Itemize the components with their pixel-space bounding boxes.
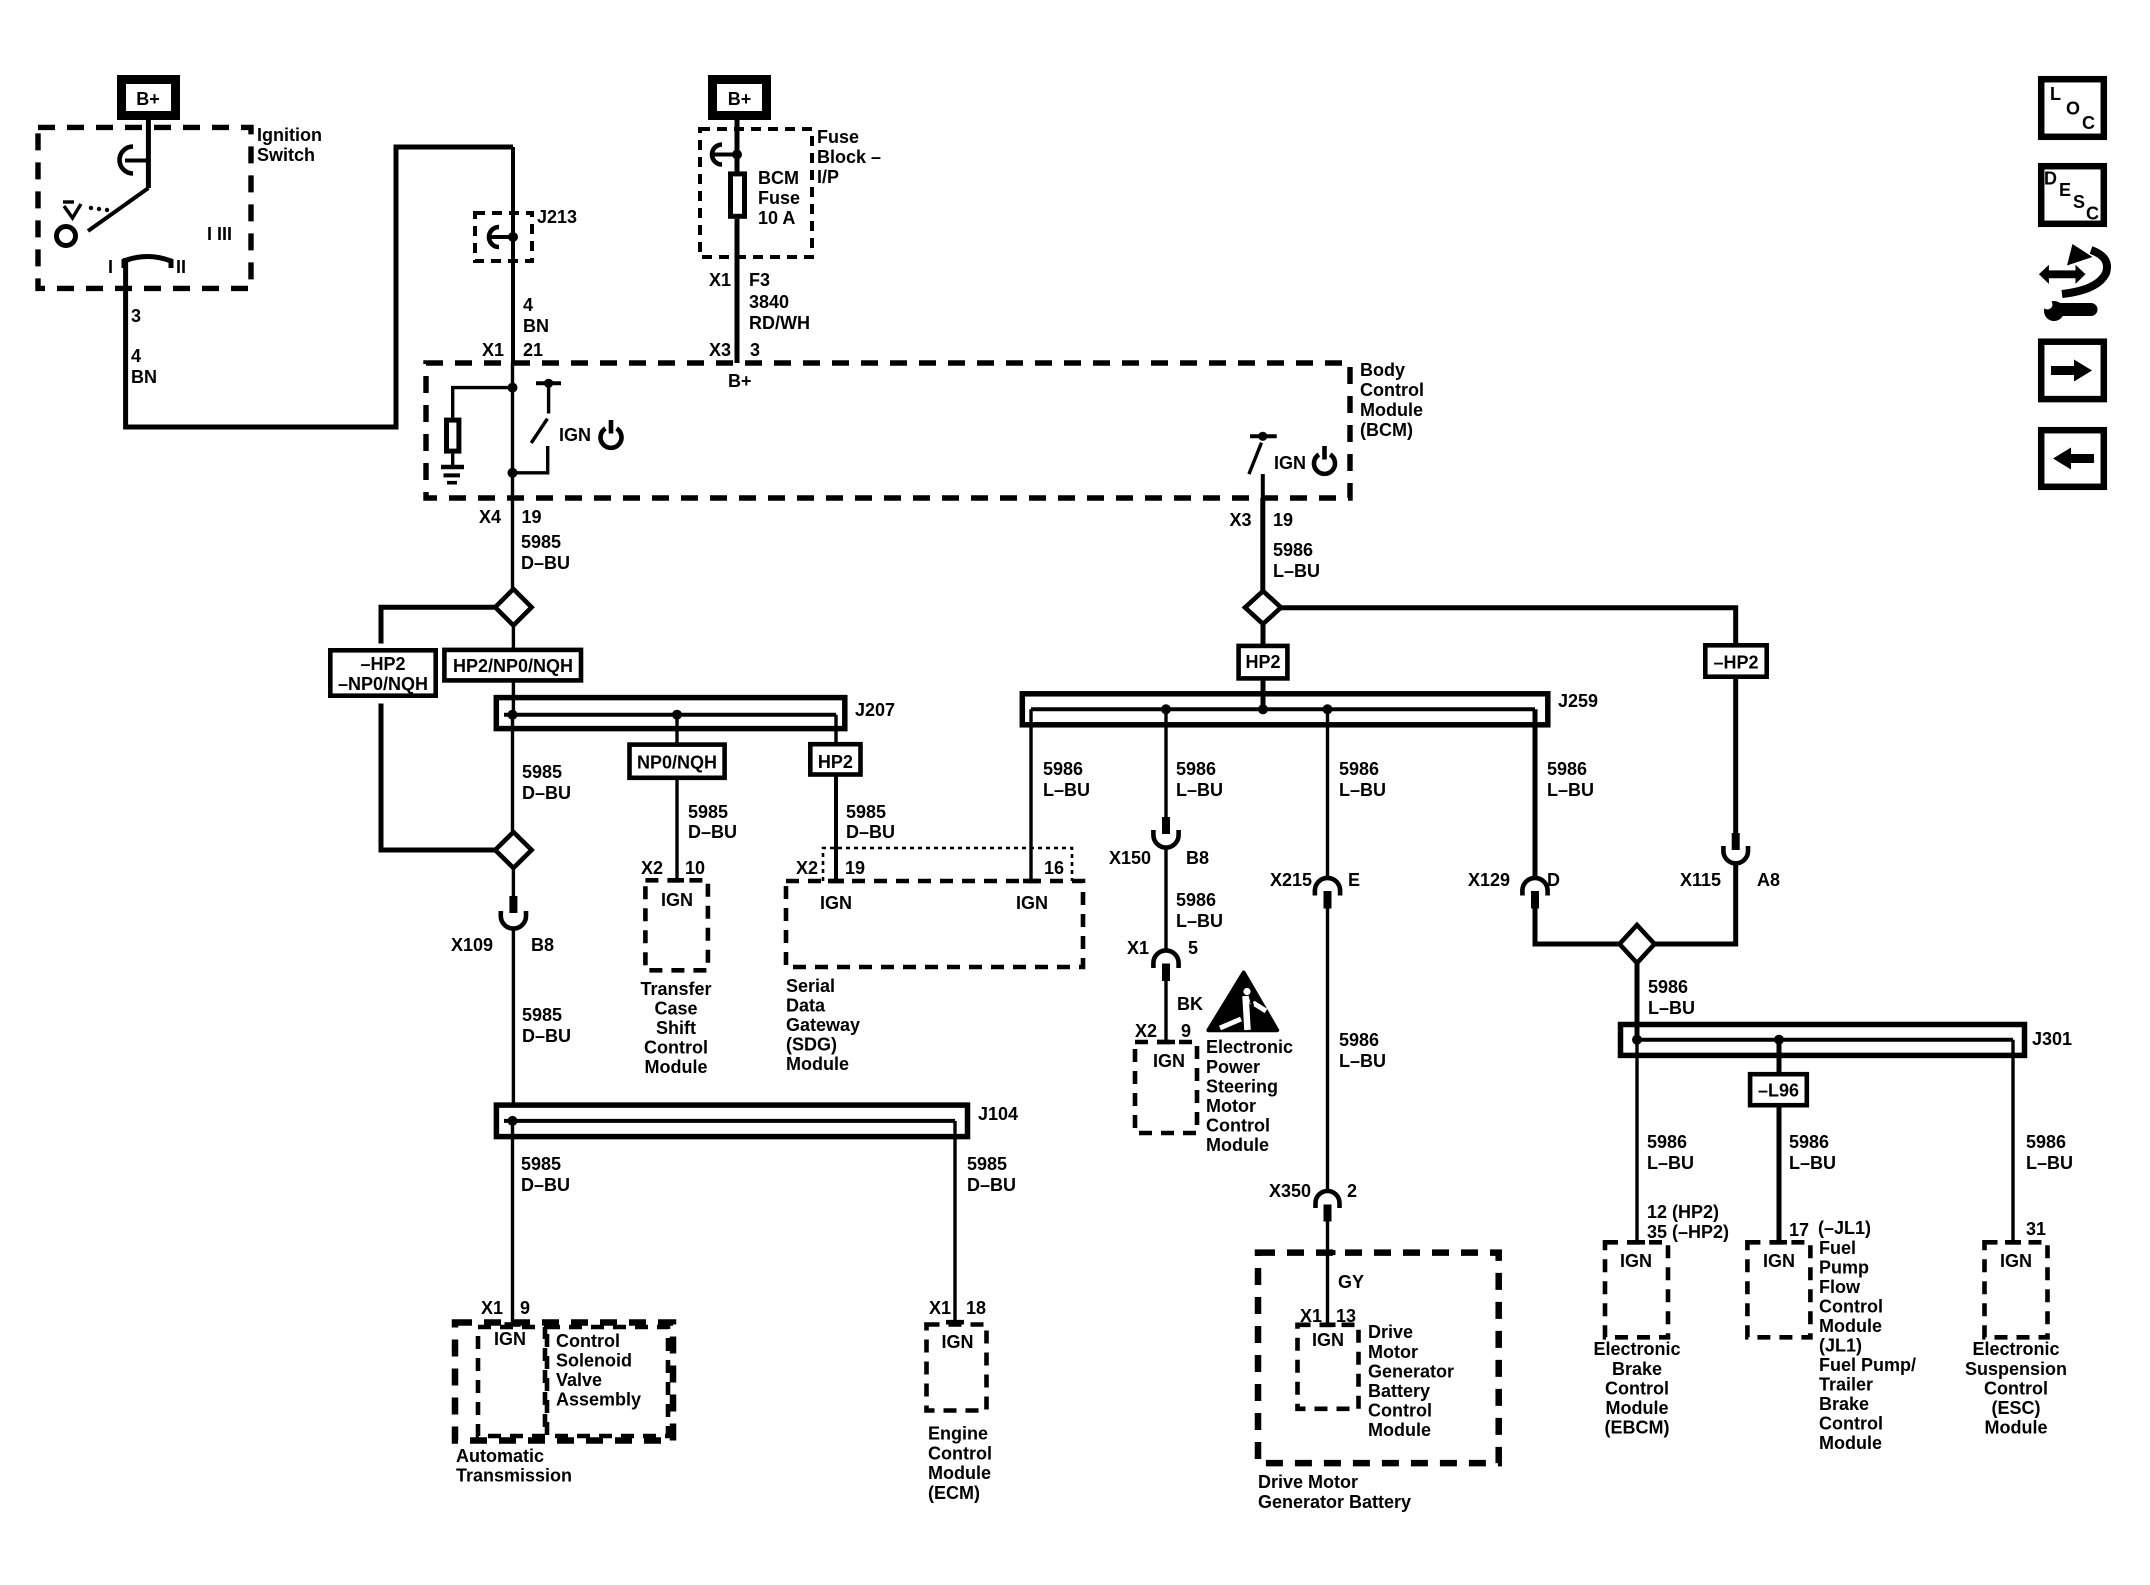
svg-text:L: L — [2050, 84, 2061, 104]
svg-text:10 A: 10 A — [758, 208, 795, 228]
svg-text:X1: X1 — [481, 1298, 503, 1318]
svg-text:C: C — [2082, 113, 2095, 133]
svg-text:X109: X109 — [451, 935, 493, 955]
svg-text:Switch: Switch — [257, 145, 315, 165]
svg-text:Motor: Motor — [1206, 1096, 1256, 1116]
svg-text:Case: Case — [654, 999, 697, 1019]
svg-text:Control: Control — [1368, 1401, 1432, 1421]
svg-text:IGN: IGN — [820, 893, 852, 913]
svg-text:Module: Module — [1368, 1420, 1431, 1440]
svg-text:–NP0/NQH: –NP0/NQH — [338, 674, 428, 694]
svg-text:Module: Module — [645, 1057, 708, 1077]
svg-text:5986: 5986 — [1339, 759, 1379, 779]
svg-text:HP2: HP2 — [818, 752, 853, 772]
svg-text:(ECM): (ECM) — [928, 1483, 980, 1503]
svg-text:L–BU: L–BU — [1339, 1051, 1386, 1071]
svg-text:BN: BN — [131, 367, 157, 387]
svg-text:X150: X150 — [1109, 848, 1151, 868]
svg-text:Control: Control — [928, 1444, 992, 1464]
svg-text:–HP2: –HP2 — [360, 654, 405, 674]
svg-text:L–BU: L–BU — [1176, 911, 1223, 931]
svg-text:Control: Control — [1819, 1414, 1883, 1434]
svg-text:–L96: –L96 — [1758, 1081, 1799, 1101]
svg-text:Module: Module — [1985, 1418, 2048, 1438]
svg-text:J207: J207 — [855, 700, 895, 720]
svg-text:IGN: IGN — [1153, 1051, 1185, 1071]
svg-text:X1: X1 — [929, 1298, 951, 1318]
svg-text:NP0/NQH: NP0/NQH — [637, 753, 717, 773]
svg-text:(BCM): (BCM) — [1360, 420, 1413, 440]
svg-text:5986: 5986 — [1647, 1132, 1687, 1152]
svg-text:J301: J301 — [2032, 1029, 2072, 1049]
svg-text:Serial: Serial — [786, 976, 835, 996]
svg-text:L–BU: L–BU — [1339, 780, 1386, 800]
svg-text:IGN: IGN — [494, 1329, 526, 1349]
svg-text:Module: Module — [1819, 1316, 1882, 1336]
svg-text:5986: 5986 — [1043, 759, 1083, 779]
svg-text:B8: B8 — [1186, 848, 1209, 868]
svg-text:IGN: IGN — [942, 1332, 974, 1352]
svg-text:3840: 3840 — [749, 292, 789, 312]
svg-text:L–BU: L–BU — [2026, 1153, 2073, 1173]
svg-text:B+: B+ — [728, 89, 752, 109]
svg-text:Control: Control — [644, 1038, 708, 1058]
svg-text:IGN: IGN — [1763, 1251, 1795, 1271]
svg-text:X1: X1 — [482, 340, 504, 360]
svg-text:5986: 5986 — [1648, 977, 1688, 997]
svg-text:IGN: IGN — [661, 890, 693, 910]
svg-text:Module: Module — [786, 1054, 849, 1074]
svg-text:L–BU: L–BU — [1647, 1153, 1694, 1173]
svg-text:F3: F3 — [749, 270, 770, 290]
svg-text:Pump: Pump — [1819, 1258, 1869, 1278]
svg-text:E: E — [2059, 180, 2071, 200]
svg-text:5985: 5985 — [521, 1154, 561, 1174]
svg-text:B+: B+ — [728, 371, 752, 391]
svg-text:C: C — [2086, 204, 2099, 224]
svg-text:Control: Control — [1605, 1379, 1669, 1399]
svg-text:IGN: IGN — [1016, 893, 1048, 913]
svg-text:31: 31 — [2026, 1219, 2046, 1239]
svg-text:18: 18 — [966, 1298, 986, 1318]
svg-text:5986: 5986 — [1176, 759, 1216, 779]
svg-text:BN: BN — [523, 316, 549, 336]
svg-text:Steering: Steering — [1206, 1077, 1278, 1097]
svg-text:X3: X3 — [709, 340, 731, 360]
svg-text:17: 17 — [1789, 1220, 1809, 1240]
svg-text:5986: 5986 — [1176, 890, 1216, 910]
svg-text:Control: Control — [1819, 1297, 1883, 1317]
svg-text:X2: X2 — [796, 858, 818, 878]
svg-text:B+: B+ — [136, 89, 160, 109]
svg-text:5986: 5986 — [1547, 759, 1587, 779]
svg-text:X1: X1 — [1127, 938, 1149, 958]
svg-text:L–BU: L–BU — [1273, 561, 1320, 581]
svg-text:D–BU: D–BU — [688, 822, 737, 842]
svg-text:X1: X1 — [709, 270, 731, 290]
svg-text:Module: Module — [1606, 1398, 1669, 1418]
svg-text:Power: Power — [1206, 1057, 1260, 1077]
svg-text:O: O — [2066, 99, 2080, 119]
svg-text:E: E — [1348, 870, 1360, 890]
svg-text:Transmission: Transmission — [456, 1466, 572, 1486]
svg-text:5985: 5985 — [521, 532, 561, 552]
svg-text:Control: Control — [1206, 1116, 1270, 1136]
svg-text:12 (HP2): 12 (HP2) — [1647, 1202, 1719, 1222]
svg-text:L–BU: L–BU — [1648, 998, 1695, 1018]
svg-text:19: 19 — [1273, 510, 1293, 530]
svg-text:D–BU: D–BU — [521, 1175, 570, 1195]
svg-text:Block –: Block – — [817, 147, 881, 167]
svg-text:Electronic: Electronic — [1206, 1037, 1293, 1057]
svg-text:Module: Module — [928, 1463, 991, 1483]
svg-text:5985: 5985 — [688, 802, 728, 822]
svg-text:X115: X115 — [1680, 870, 1721, 890]
svg-text:X3: X3 — [1229, 510, 1251, 530]
svg-text:IGN: IGN — [2000, 1251, 2032, 1271]
svg-text:3: 3 — [750, 340, 760, 360]
svg-text:Trailer: Trailer — [1819, 1375, 1873, 1395]
svg-text:Engine: Engine — [928, 1424, 988, 1444]
svg-text:2: 2 — [1347, 1181, 1357, 1201]
svg-text:Data: Data — [786, 996, 826, 1016]
svg-text:RD/WH: RD/WH — [749, 313, 810, 333]
svg-text:L–BU: L–BU — [1547, 780, 1594, 800]
svg-text:19: 19 — [522, 507, 542, 527]
svg-text:Suspension: Suspension — [1965, 1359, 2067, 1379]
svg-text:(JL1): (JL1) — [1819, 1336, 1862, 1356]
svg-text:IGN: IGN — [1620, 1251, 1652, 1271]
svg-text:I: I — [108, 257, 113, 277]
svg-text:IGN: IGN — [559, 425, 591, 445]
svg-text:Control: Control — [1984, 1379, 2048, 1399]
svg-text:Automatic: Automatic — [456, 1446, 544, 1466]
svg-text:Fuel: Fuel — [1819, 1238, 1856, 1258]
svg-text:5986: 5986 — [2026, 1132, 2066, 1152]
svg-text:I III: I III — [207, 224, 232, 244]
svg-text:Motor: Motor — [1368, 1342, 1418, 1362]
svg-text:(ESC): (ESC) — [1992, 1398, 2041, 1418]
svg-text:II: II — [176, 257, 186, 277]
svg-text:X215: X215 — [1270, 870, 1312, 890]
svg-text:L–BU: L–BU — [1176, 780, 1223, 800]
svg-text:Body: Body — [1360, 360, 1405, 380]
svg-text:L–BU: L–BU — [1789, 1153, 1836, 1173]
svg-text:Flow: Flow — [1819, 1277, 1861, 1297]
svg-text:5985: 5985 — [846, 802, 886, 822]
svg-text:HP2: HP2 — [1245, 652, 1280, 672]
svg-text:L–BU: L–BU — [1043, 780, 1090, 800]
svg-text:HP2/NP0/NQH: HP2/NP0/NQH — [453, 656, 573, 676]
svg-text:Fuse: Fuse — [758, 188, 800, 208]
svg-text:5986: 5986 — [1339, 1030, 1379, 1050]
svg-text:35 (–HP2): 35 (–HP2) — [1647, 1222, 1729, 1242]
svg-text:5986: 5986 — [1789, 1132, 1829, 1152]
svg-text:4: 4 — [523, 295, 533, 315]
svg-text:21: 21 — [523, 340, 543, 360]
svg-text:Control: Control — [556, 1331, 620, 1351]
svg-text:4: 4 — [131, 346, 141, 366]
svg-text:J213: J213 — [537, 207, 577, 227]
svg-text:X2: X2 — [1135, 1021, 1157, 1041]
svg-text:19: 19 — [845, 858, 865, 878]
svg-text:Gateway: Gateway — [786, 1015, 860, 1035]
svg-text:16: 16 — [1044, 858, 1064, 878]
svg-text:IGN: IGN — [1312, 1330, 1344, 1350]
svg-text:X2: X2 — [641, 858, 663, 878]
svg-text:Ignition: Ignition — [257, 125, 322, 145]
svg-text:Brake: Brake — [1819, 1394, 1869, 1414]
svg-text:5985: 5985 — [522, 1005, 562, 1025]
svg-text:Drive: Drive — [1368, 1322, 1413, 1342]
svg-text:(SDG): (SDG) — [786, 1035, 837, 1055]
svg-text:Generator Battery: Generator Battery — [1258, 1492, 1411, 1512]
svg-text:Module: Module — [1819, 1433, 1882, 1453]
svg-text:S: S — [2073, 192, 2085, 212]
svg-text:IGN: IGN — [1274, 453, 1306, 473]
svg-text:5985: 5985 — [967, 1154, 1007, 1174]
svg-text:X129: X129 — [1468, 870, 1510, 890]
svg-text:3: 3 — [131, 306, 141, 326]
svg-text:Drive Motor: Drive Motor — [1258, 1472, 1358, 1492]
svg-text:B8: B8 — [531, 935, 554, 955]
svg-text:10: 10 — [685, 858, 705, 878]
svg-text:9: 9 — [520, 1298, 530, 1318]
svg-text:Control: Control — [1360, 380, 1424, 400]
svg-text:J259: J259 — [1558, 691, 1598, 711]
svg-text:(EBCM): (EBCM) — [1605, 1418, 1670, 1438]
svg-text:Fuse: Fuse — [817, 127, 859, 147]
svg-text:5986: 5986 — [1273, 540, 1313, 560]
svg-text:D–BU: D–BU — [521, 553, 570, 573]
svg-text:D: D — [2044, 169, 2057, 189]
svg-text:J104: J104 — [978, 1104, 1018, 1124]
svg-text:Solenoid: Solenoid — [556, 1351, 632, 1371]
svg-text:D–BU: D–BU — [522, 783, 571, 803]
svg-text:Fuel Pump/: Fuel Pump/ — [1819, 1355, 1916, 1375]
svg-text:Brake: Brake — [1612, 1359, 1662, 1379]
svg-text:D–BU: D–BU — [522, 1026, 571, 1046]
svg-text:Assembly: Assembly — [556, 1390, 641, 1410]
svg-text:9: 9 — [1181, 1021, 1191, 1041]
svg-text:Module: Module — [1360, 400, 1423, 420]
svg-text:Electronic: Electronic — [1972, 1339, 2059, 1359]
svg-text:I/P: I/P — [817, 167, 839, 187]
svg-text:GY: GY — [1338, 1272, 1364, 1292]
svg-text:BK: BK — [1177, 994, 1203, 1014]
svg-text:Shift: Shift — [656, 1018, 696, 1038]
svg-text:BCM: BCM — [758, 168, 799, 188]
svg-text:D–BU: D–BU — [967, 1175, 1016, 1195]
svg-text:Valve: Valve — [556, 1370, 602, 1390]
svg-text:D–BU: D–BU — [846, 822, 895, 842]
svg-text:X350: X350 — [1269, 1181, 1311, 1201]
svg-text:X4: X4 — [479, 507, 501, 527]
svg-text:Generator: Generator — [1368, 1362, 1454, 1382]
svg-text:(–JL1): (–JL1) — [1818, 1218, 1871, 1238]
svg-text:5985: 5985 — [522, 762, 562, 782]
svg-text:Electronic: Electronic — [1593, 1339, 1680, 1359]
svg-text:–HP2: –HP2 — [1713, 653, 1758, 673]
svg-text:5: 5 — [1188, 938, 1198, 958]
svg-text:Battery: Battery — [1368, 1381, 1430, 1401]
svg-text:A8: A8 — [1757, 870, 1780, 890]
svg-text:Transfer: Transfer — [640, 979, 711, 999]
svg-text:Module: Module — [1206, 1135, 1269, 1155]
